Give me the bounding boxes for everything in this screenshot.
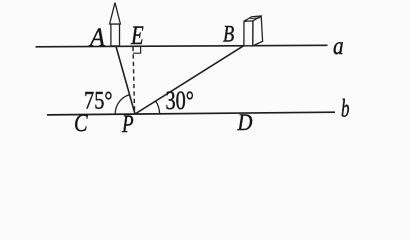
segment PA [116, 46, 135, 114]
svg-text:D: D [237, 110, 253, 135]
arc for 75 degrees at P [115, 95, 129, 115]
arc for 30 degrees at P [156, 101, 160, 114]
svg-text:b: b [341, 94, 350, 122]
book pages inner line [250, 17, 260, 20]
book top face [244, 16, 261, 21]
svg-text:P: P [121, 109, 133, 137]
svg-text:30°: 30° [166, 87, 194, 116]
svg-text:a: a [333, 32, 344, 60]
svg-text:A: A [88, 24, 105, 52]
right-angle mark at foot of E [133, 47, 141, 54]
book front face [244, 21, 253, 46]
pencil tip cone [110, 3, 121, 24]
svg-text:B: B [223, 21, 234, 48]
dashed segment PE [133, 47, 135, 113]
book right face [253, 16, 263, 46]
line b [47, 112, 335, 115]
line a [36, 45, 328, 47]
segment PB [135, 46, 244, 114]
svg-text:75°: 75° [84, 85, 113, 114]
svg-text:E: E [130, 22, 144, 51]
pencil body [111, 24, 120, 46]
